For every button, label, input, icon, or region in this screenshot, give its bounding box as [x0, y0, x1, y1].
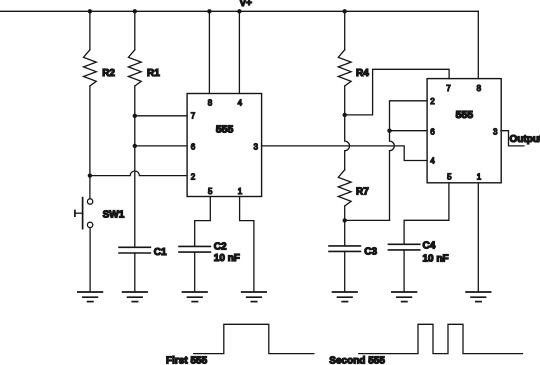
svg-text:C2: C2: [214, 241, 227, 252]
svg-text:V+: V+: [240, 0, 253, 9]
label C4 value 10 nF: [423, 253, 449, 264]
svg-text:3: 3: [493, 128, 498, 137]
svg-text:R7: R7: [356, 187, 369, 198]
op-amp U1 555 IC box: [187, 94, 262, 197]
resistor R2: [84, 50, 97, 86]
svg-text:First 555: First 555: [166, 356, 208, 365]
resistor R7: [338, 170, 351, 206]
wire SW1 to ground: [89, 228, 91, 292]
svg-text:C1: C1: [154, 247, 167, 258]
wire U1 pin 1 to ground: [240, 197, 254, 292]
wire U1 pin 8 to rail: [208, 11, 210, 93]
wire C4 to ground: [403, 250, 405, 292]
svg-text:C4: C4: [423, 241, 436, 252]
svg-text:Output: Output: [510, 134, 540, 145]
ground C4: [392, 292, 417, 302]
ground U1 pin 1: [242, 292, 267, 302]
pin 2 label U2: [430, 97, 435, 106]
op-amp U2 555 IC box: [427, 79, 501, 183]
label V+: [240, 0, 253, 9]
ground C3: [333, 292, 358, 302]
wire rail to R2: [89, 11, 91, 50]
resistor R1: [128, 50, 141, 86]
svg-text:10 nF: 10 nF: [423, 253, 449, 264]
node pin2/6 junction: [387, 129, 391, 133]
waveform First 555: [194, 324, 314, 353]
wire U1 pin 3 to U2 pin 4: [262, 146, 428, 161]
pin 5 label U1: [208, 187, 213, 196]
ground U2 pin 1: [466, 292, 491, 302]
wire R2 to pin2 node: [89, 86, 91, 176]
svg-text:7: 7: [191, 112, 196, 121]
wire C1 to ground: [134, 253, 136, 292]
wire node to R7 with hop over pin3 wire: [345, 115, 350, 170]
svg-text:555: 555: [456, 109, 474, 121]
node rail-U1pin4: [237, 9, 241, 13]
wire R4 to node: [344, 86, 346, 115]
node R7 bottom: [343, 218, 347, 222]
label First 555: [166, 356, 208, 365]
wire node to SW1: [89, 176, 91, 199]
ground SW1: [78, 292, 103, 302]
wire node to U1 pin 7: [135, 115, 187, 117]
switch SW1: [75, 198, 93, 229]
svg-text:5: 5: [447, 173, 452, 182]
wire C2 to ground: [194, 252, 196, 292]
label R2: [102, 68, 115, 79]
svg-text:555: 555: [216, 123, 234, 135]
capacitor C1: [119, 247, 150, 253]
wire R1 to C1: [134, 86, 136, 247]
wire U2 pin 1 to ground: [477, 183, 479, 292]
wire pin2 net with hop over R1 column: [90, 171, 187, 176]
wire node to U1 pin 6: [135, 145, 187, 147]
wire node to C3: [344, 220, 346, 245]
svg-text:C3: C3: [364, 246, 377, 257]
label R7: [356, 187, 369, 198]
svg-text:R2: R2: [102, 68, 115, 79]
ground C1: [123, 292, 148, 302]
label Output: [510, 134, 540, 145]
pin 6 label U2: [430, 128, 435, 137]
svg-text:R1: R1: [147, 68, 160, 79]
pin 4 label U1: [238, 98, 243, 107]
svg-text:7: 7: [446, 84, 451, 93]
svg-text:8: 8: [208, 98, 213, 107]
label R1: [147, 68, 160, 79]
ground C2: [183, 292, 208, 302]
pin 8 label U2: [477, 84, 482, 93]
svg-text:10 nF: 10 nF: [214, 253, 240, 264]
wire U1 pin 5 to C2: [195, 197, 211, 247]
svg-text:1: 1: [238, 187, 243, 196]
wire rail to R1: [134, 11, 136, 50]
node R4 bottom: [343, 113, 347, 117]
node R1-pin6: [133, 144, 137, 148]
label C2 value 10 nF: [214, 253, 240, 264]
pin 7 label U2: [446, 84, 451, 93]
wire node to U2 pin 7: [345, 69, 449, 115]
svg-text:R4: R4: [356, 68, 369, 79]
pin 5 label U2: [447, 173, 452, 182]
capacitor C2: [179, 246, 210, 252]
svg-text:4: 4: [430, 157, 435, 166]
pin 6 label U1: [191, 143, 196, 152]
wire U2 pin 5 to C4: [404, 183, 449, 244]
capacitor C4: [388, 244, 419, 250]
capacitor C3: [329, 246, 360, 252]
pin 3 label U2: [493, 128, 498, 137]
label C4: [423, 241, 436, 252]
pin 7 label U1: [191, 112, 196, 121]
node rail-U1pin8: [207, 9, 211, 13]
svg-text:1: 1: [477, 173, 482, 182]
wire column up with hop over pin3 wire: [390, 131, 395, 221]
wire V+ rail drop to U2 pin 8: [477, 11, 479, 78]
svg-text:8: 8: [477, 84, 482, 93]
pin 1 label U2: [477, 173, 482, 182]
label U2 555: [456, 109, 474, 121]
waveform Second 555: [359, 324, 523, 353]
label SW1: [103, 209, 125, 220]
svg-text:3: 3: [254, 143, 259, 152]
svg-text:6: 6: [430, 128, 435, 137]
resistor R4: [338, 50, 351, 86]
svg-text:4: 4: [238, 98, 243, 107]
svg-text:2: 2: [430, 97, 435, 106]
wire rail to R4: [344, 11, 346, 50]
svg-text:6: 6: [191, 143, 196, 152]
node R2-pin2: [88, 173, 92, 177]
label C3: [364, 246, 377, 257]
svg-text:5: 5: [208, 187, 213, 196]
wire node to pin2/6 column: [345, 219, 390, 221]
wire V+ rail: [0, 10, 478, 12]
node rail-R4: [343, 9, 347, 13]
label U1 555: [216, 123, 234, 135]
pin 3 label U1: [254, 143, 259, 152]
wire node to U2 pin 2: [390, 101, 428, 131]
pin 2 label U1: [191, 172, 196, 181]
label R4: [356, 68, 369, 79]
wire node to U2 pin 6: [390, 130, 428, 132]
node rail-R1: [133, 9, 137, 13]
wire U2 pin 3 to output: [501, 131, 524, 146]
label Second 555: [329, 356, 385, 365]
pin 1 label U1: [238, 187, 243, 196]
label C1: [154, 247, 167, 258]
node R1-pin7: [133, 114, 137, 118]
label C2: [214, 241, 227, 252]
pin 8 label U1: [208, 98, 213, 107]
pin 4 label U2: [430, 157, 435, 166]
wire U1 pin 4 to rail: [238, 11, 240, 93]
node rail-R2: [88, 9, 92, 13]
svg-text:Second 555: Second 555: [329, 356, 385, 365]
wire C3 to ground: [344, 251, 346, 291]
svg-text:2: 2: [191, 172, 196, 181]
wire R7 to node: [344, 206, 346, 220]
svg-text:SW1: SW1: [103, 209, 125, 220]
